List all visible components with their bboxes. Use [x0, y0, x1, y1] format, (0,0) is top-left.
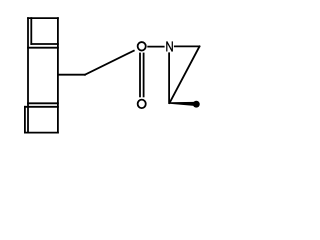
- wire cage inner top vertical: [30, 18, 32, 44]
- wire cage low rung lower: [25, 106, 58, 108]
- wire cage right vertical: [57, 18, 59, 133]
- wire cage bottom edge: [25, 132, 58, 134]
- wire wedge bond to methyl: [169, 102, 194, 106]
- node N: [167, 41, 173, 51]
- wire O=O double bond line 2: [143, 54, 145, 97]
- wire bond to CH2: [58, 74, 85, 76]
- wire cage top edge: [28, 17, 58, 19]
- wire bond N down to C: [168, 53, 170, 103]
- wire cage left vertical: [27, 18, 29, 133]
- node methyl blob: [193, 101, 200, 108]
- wire bond N to C top-right: [175, 45, 200, 47]
- wire O=O double bond line 1: [139, 54, 141, 97]
- node O carbonyl: [138, 100, 146, 109]
- wire cage mid rung lower: [28, 47, 58, 49]
- wire bond CH2 to O: [85, 51, 134, 75]
- wire ring diagonal bond: [170, 46, 200, 103]
- wire cage bottom-left vertical: [24, 107, 26, 133]
- wire cage low rung upper: [28, 102, 58, 104]
- wire cage mid rung upper: [31, 43, 58, 45]
- node O ester: [138, 42, 146, 51]
- wire bond O to N: [148, 46, 164, 48]
